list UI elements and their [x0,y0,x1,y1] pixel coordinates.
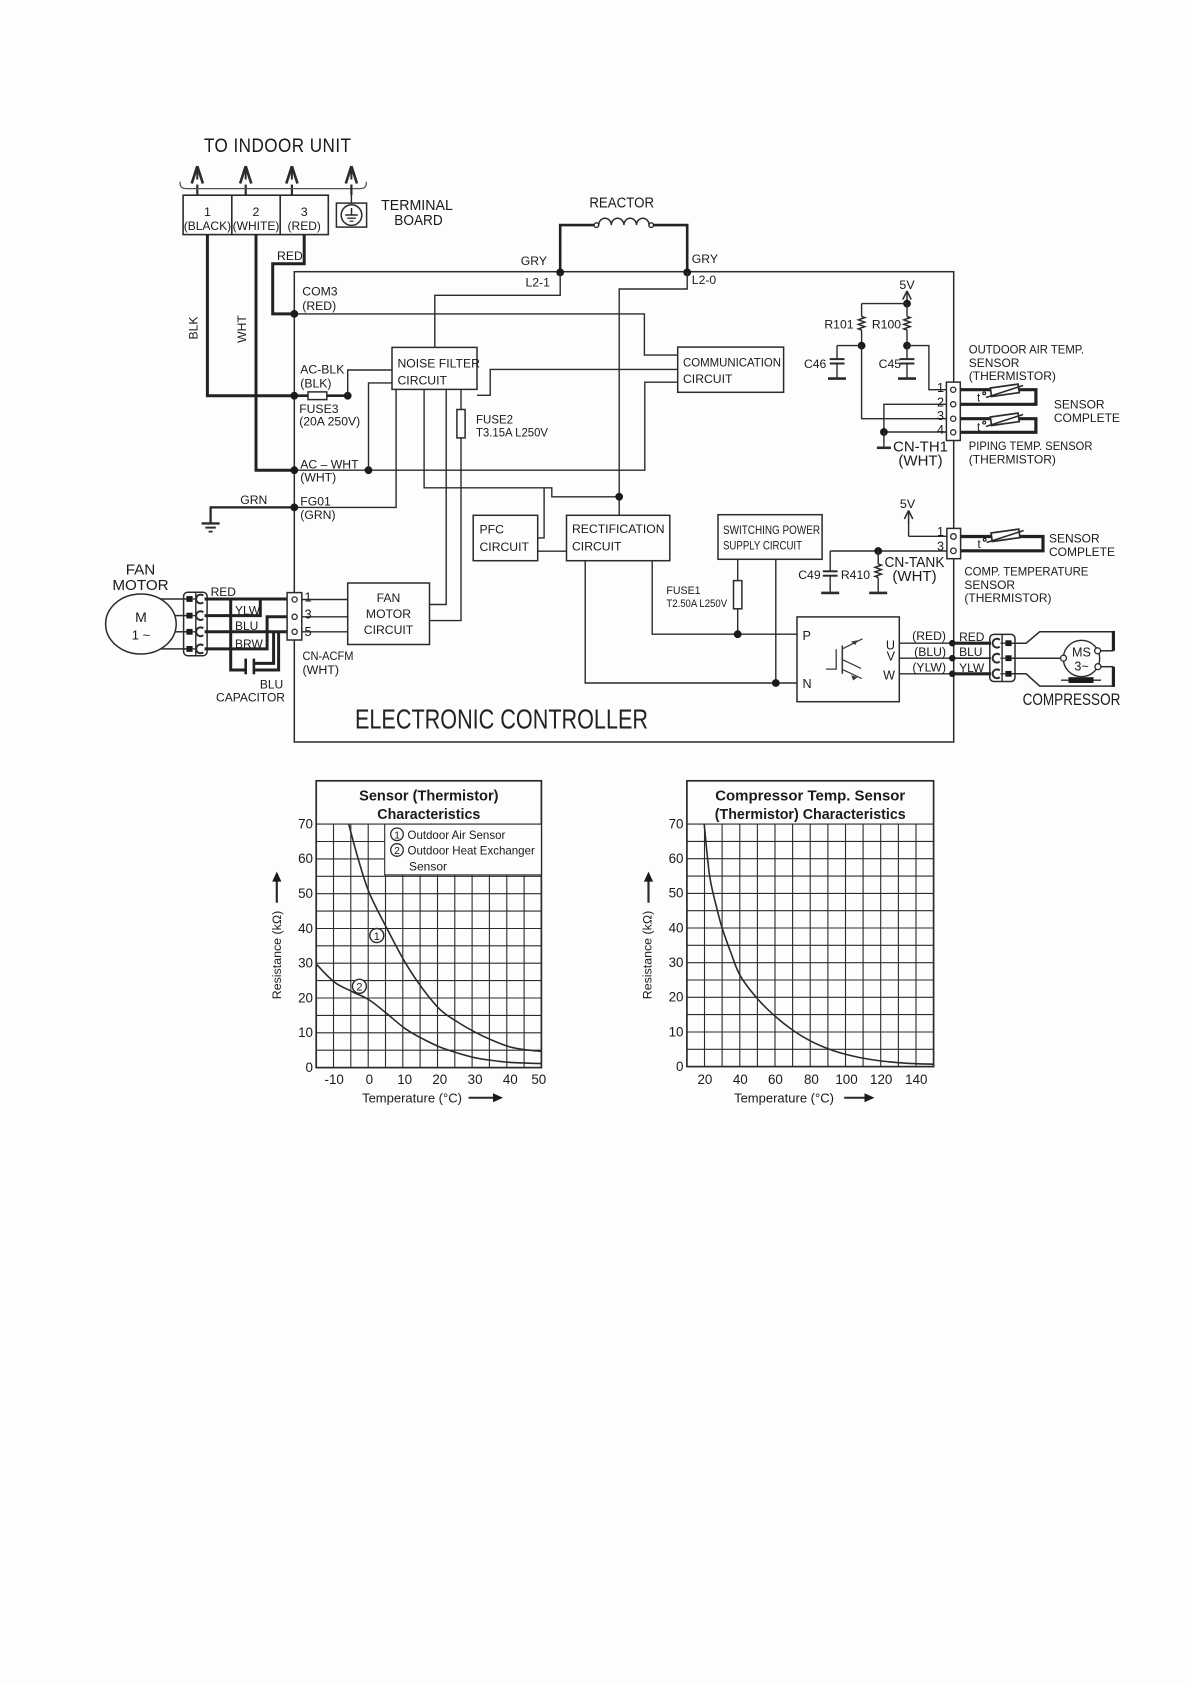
svg-text:(20A 250V): (20A 250V) [299,415,360,429]
svg-text:CIRCUIT: CIRCUIT [572,539,622,553]
svg-text:L2-0: L2-0 [692,273,717,287]
svg-text:(BLK): (BLK) [300,377,331,391]
wire WHT from terminal 2 [256,235,294,471]
svg-text:30: 30 [669,955,684,970]
svg-text:10: 10 [669,1024,684,1039]
wire RED compressor [954,642,991,645]
svg-text:10: 10 [397,1072,412,1087]
svg-text:RED: RED [211,585,237,599]
junction AC-BLK [344,392,352,400]
svg-text:T2.50A L250V: T2.50A L250V [666,598,728,610]
svg-text:2: 2 [253,205,260,219]
node W [949,671,956,678]
resistor R100 [906,304,908,317]
junction L2-0 rectification [615,493,623,501]
svg-text:80: 80 [804,1072,819,1087]
svg-text:Sensor (Thermistor): Sensor (Thermistor) [359,788,498,805]
thermistor loop comp [961,537,1043,551]
node COM3 entry [290,310,298,318]
junction dot L2-0 [683,269,691,277]
indoor-unit arrow 1 [192,166,198,183]
svg-text:140: 140 [905,1072,927,1087]
svg-text:SENSOR: SENSOR [1054,398,1105,412]
svg-text:GRN: GRN [240,493,267,507]
wire V to compressor [1012,657,1067,659]
svg-text:L2-1: L2-1 [526,276,551,290]
svg-text:COM3: COM3 [302,285,337,299]
junction R100 bottom [903,342,911,350]
node 5V upper [903,300,911,308]
fuse FUSE1 [734,581,742,609]
svg-text:AC – WHT: AC – WHT [300,458,359,472]
svg-text:70: 70 [669,816,684,831]
wire PFC tap [537,488,544,538]
svg-text:REACTOR: REACTOR [589,196,654,212]
svg-text:T3.15A L250V: T3.15A L250V [476,428,548,440]
svg-text:-10: -10 [325,1072,344,1087]
svg-text:Compressor Temp. Sensor: Compressor Temp. Sensor [715,788,905,805]
svg-text:(RED): (RED) [912,629,946,643]
wire switching supply to N [775,559,777,683]
svg-text:GRY: GRY [692,252,718,266]
thermistor loop outdoor air [960,390,1036,405]
svg-text:COMP. TEMPERATURE: COMP. TEMPERATURE [964,565,1088,579]
block IPM inverter [797,617,899,702]
electronic controller outline [294,272,953,742]
svg-text:CIRCUIT: CIRCUIT [398,374,448,388]
svg-text:Temperature (°C): Temperature (°C) [362,1091,462,1106]
svg-text:5V: 5V [899,278,915,292]
graph2 grid [687,824,934,1067]
svg-text:Resistance (kΩ): Resistance (kΩ) [270,911,284,999]
svg-text:3: 3 [937,409,944,423]
block COMMUNICATION CIRCUIT [678,347,784,392]
svg-text:GRY: GRY [521,254,547,268]
op-amp block NOISE FILTER CIRCUIT [392,347,477,389]
wire CN-TH1 pin4 to ground [884,431,947,433]
svg-text:10: 10 [298,1025,313,1040]
graph1 legend box [385,824,542,875]
junction AC-WHT to noise filter [365,466,373,474]
svg-text:(BLU): (BLU) [914,645,946,659]
junction pins 2-4 [880,428,888,436]
svg-text:40: 40 [669,920,684,935]
fuse FUSE3 [308,392,327,400]
svg-text:(YLW): (YLW) [912,661,946,675]
node V [949,655,956,662]
svg-text:C46: C46 [804,357,827,371]
wire U output [899,642,953,644]
wires CN-ACFM to fan motor circuit [302,599,348,601]
svg-text:FG01: FG01 [300,495,331,509]
wire RED from terminal 3 [273,235,305,314]
wire BRW fan to pin3 [205,617,294,649]
thermistor piping sensor [986,413,1023,426]
svg-text:Outdoor Air Sensor: Outdoor Air Sensor [408,828,506,842]
svg-text:3~: 3~ [1074,660,1088,674]
wire COM3 [294,314,677,355]
svg-text:50: 50 [531,1072,546,1087]
svg-text:FUSE1: FUSE1 [666,585,700,597]
svg-text:Outdoor Heat Exchanger: Outdoor Heat Exchanger [408,844,535,858]
svg-text:3: 3 [305,607,312,622]
svg-text:OUTDOOR AIR TEMP.: OUTDOOR AIR TEMP. [969,343,1084,357]
svg-text:FAN: FAN [377,591,401,605]
svg-text:BOARD: BOARD [394,213,442,229]
svg-text:COMPLETE: COMPLETE [1054,411,1120,425]
svg-text:(THERMISTOR): (THERMISTOR) [969,452,1056,466]
wire R100 to CN-TH1 pin1 [907,346,946,390]
svg-text:0: 0 [676,1059,683,1074]
svg-text:BLU: BLU [959,645,982,659]
wire CN-TH1 pin2 to ground [884,404,947,432]
resistor R410 [877,551,879,564]
svg-text:1: 1 [374,931,380,943]
svg-text:0: 0 [306,1060,313,1075]
svg-text:PIPING TEMP. SENSOR: PIPING TEMP. SENSOR [969,439,1093,453]
wire BLU fan to pin5 [205,630,294,633]
svg-text:3: 3 [301,205,308,219]
junction dot L2-1 [556,269,564,277]
connector CN-ACFM [287,593,302,640]
connector fan motor plug [184,592,208,656]
graph1 marker 1 [370,929,384,943]
svg-text:40: 40 [503,1072,518,1087]
svg-text:20: 20 [697,1072,712,1087]
brace over terminal board [180,182,366,189]
svg-text:30: 30 [298,956,313,971]
svg-text:1: 1 [394,829,400,841]
svg-text:Resistance (kΩ): Resistance (kΩ) [641,911,655,999]
wire RED fan to pin1 [205,598,294,601]
svg-text:MOTOR: MOTOR [112,577,168,594]
block PFC CIRCUIT [473,515,538,560]
svg-text:(RED): (RED) [302,299,336,313]
wire noise filter lower-left pin [369,383,393,470]
svg-text:60: 60 [298,851,313,866]
svg-text:SENSOR: SENSOR [1049,532,1100,546]
svg-text:COMPLETE: COMPLETE [1049,545,1115,559]
svg-text:MS: MS [1072,646,1091,660]
svg-text:30: 30 [468,1072,483,1087]
svg-text:20: 20 [298,990,313,1005]
svg-text:0: 0 [366,1072,373,1087]
wire rectification to IPM N [585,561,797,683]
node U [949,640,956,647]
5V arrow lower [908,512,910,523]
thermistor loop piping [960,419,1036,433]
svg-text:60: 60 [669,851,684,866]
graph2 x axis arrow [844,1097,865,1099]
indoor-unit arrow 4 [346,166,352,183]
svg-text:N: N [803,677,812,691]
junction P FUSE1 [734,630,742,638]
svg-text:WHT: WHT [235,315,249,343]
svg-text:4: 4 [937,423,944,437]
svg-text:M: M [135,609,147,625]
junction R410 top [874,547,882,555]
capacitor fan BLU [244,659,247,675]
fuse FUSE2 [457,410,465,438]
wire noise filter right pin to communication circuit [477,369,678,395]
svg-text:1: 1 [937,381,944,395]
motor M1 fan motor [106,594,177,654]
svg-text:MOTOR: MOTOR [366,607,411,621]
svg-text:Temperature (°C): Temperature (°C) [734,1091,834,1106]
motor leads [161,598,187,600]
indoor-unit arrow 2 [240,166,246,183]
connector CN-TANK [947,528,961,558]
compressor heater bar [1061,679,1101,681]
svg-text:(WHT): (WHT) [892,568,936,585]
svg-text:(THERMISTOR): (THERMISTOR) [969,369,1056,383]
svg-text:SENSOR: SENSOR [964,578,1015,592]
wire noise filter pin2 to rectification net [424,389,619,496]
wire AC-BLK with FUSE3 [294,394,347,397]
thermistor outdoor air sensor [986,384,1023,397]
graph1 x axis arrow [469,1097,494,1099]
svg-text:SWITCHING POWER: SWITCHING POWER [723,523,820,537]
wire W to compressor [1012,674,1114,686]
thermistor comp sensor [987,529,1024,542]
wire L2-1 to noise filter [435,272,560,347]
indoor-unit arrow 3 [286,166,292,183]
wire FG01 [294,389,396,507]
motor MS compressor [1063,640,1099,676]
svg-text:20: 20 [432,1072,447,1087]
block RECTIFICATION CIRCUIT [567,515,670,560]
svg-text:PFC: PFC [480,523,505,537]
svg-text:(BLACK): (BLACK) [184,219,231,233]
svg-text:20: 20 [669,990,684,1005]
capacitor C45 [906,346,908,359]
wire W output [899,673,953,675]
graph1 legend [391,828,404,841]
svg-text:(WHT): (WHT) [303,663,339,677]
wire GRN to earth ground [211,507,295,523]
node AC-WHT entry [290,466,298,474]
svg-text:5V: 5V [900,497,916,511]
svg-text:2: 2 [937,396,944,410]
svg-text:50: 50 [298,886,313,901]
graph1 y axis arrow [276,881,278,903]
svg-text:CIRCUIT: CIRCUIT [364,623,414,637]
wire AC-BLK to noise filter [348,370,392,396]
svg-text:C45: C45 [879,357,902,371]
svg-text:50: 50 [669,886,684,901]
svg-text:(GRN): (GRN) [300,508,335,522]
svg-text:2: 2 [356,982,362,994]
graph1 grid [316,824,541,1068]
svg-text:TERMINAL: TERMINAL [381,198,453,214]
wire L2-0 drop [619,272,687,516]
svg-text:RED: RED [277,249,303,263]
reactor [560,225,594,272]
svg-text:RECTIFICATION: RECTIFICATION [572,522,665,536]
svg-text:ELECTRONIC CONTROLLER: ELECTRONIC CONTROLLER [355,704,648,735]
graph1 curve 2 heat exchanger [316,964,541,1064]
ground CN-TH1 [877,446,891,449]
svg-text:CAPACITOR: CAPACITOR [216,691,285,705]
wire noise filter pin3 to fan motor circuit [430,389,447,604]
junction R101 bottom [858,342,866,350]
graph1 marker 2 [352,979,366,993]
ground symbol [202,522,220,524]
svg-text:120: 120 [870,1072,892,1087]
svg-text:SUPPLY CIRCUIT: SUPPLY CIRCUIT [723,539,802,553]
svg-text:RED: RED [959,630,985,644]
svg-text:V: V [887,649,896,663]
wire noise filter pin4 with FUSE2 [430,389,462,620]
wire YLW fan [205,600,261,616]
svg-text:CN-ACFM: CN-ACFM [303,649,354,663]
svg-text:(WHITE): (WHITE) [233,219,280,233]
svg-text:(WHT): (WHT) [300,471,336,485]
graph2 frame [687,781,934,1067]
graph2 curve comp sensor [704,824,933,1064]
svg-text:Characteristics: Characteristics [377,806,480,823]
svg-text:60: 60 [768,1072,783,1087]
wire PFC to rectification [538,550,567,552]
wire YLW compressor [954,672,991,675]
svg-text:40: 40 [733,1072,748,1087]
wire U to compressor [1012,632,1114,643]
graph1 frame [316,781,541,1068]
connector CN-TH1 [946,382,960,440]
capacitor C49 [829,551,831,571]
svg-text:2: 2 [394,845,400,857]
wire RED branch to capacitor [231,599,245,670]
svg-text:Sensor: Sensor [409,859,447,873]
wire BLK from terminal 1 [207,235,294,396]
svg-text:100: 100 [835,1072,857,1087]
graph2 y axis arrow [647,881,649,903]
wire 5V rail [862,303,907,305]
svg-text:SENSOR: SENSOR [969,356,1020,370]
svg-text:1: 1 [937,525,944,539]
terminal board box [183,195,328,234]
junction N [772,679,780,687]
block FAN MOTOR CIRCUIT [348,583,430,645]
svg-text:70: 70 [298,816,313,831]
svg-text:40: 40 [298,921,313,936]
svg-text:CIRCUIT: CIRCUIT [480,540,530,554]
svg-text:P: P [803,629,811,643]
svg-text:R410: R410 [841,568,870,582]
svg-text:1 ~: 1 ~ [132,628,151,643]
connector compressor plug [990,634,1015,681]
wire 5V to CN-TANK pin1 [909,535,947,537]
svg-text:COMPRESSOR: COMPRESSOR [1023,691,1121,709]
svg-text:AC-BLK: AC-BLK [300,363,344,377]
node AC-BLK entry [290,392,298,400]
wire AC-WHT [294,382,677,470]
svg-text:FUSE2: FUSE2 [476,415,513,427]
block SWITCHING POWER SUPPLY CIRCUIT [718,515,822,560]
svg-text:COMMUNICATION: COMMUNICATION [683,356,781,370]
svg-text:YLW: YLW [959,661,985,675]
svg-text:NOISE FILTER: NOISE FILTER [398,356,481,370]
5V arrow upper [906,293,908,304]
wire V output [899,657,953,659]
svg-text:(WHT): (WHT) [898,453,942,470]
svg-text:W: W [883,668,895,682]
svg-text:C49: C49 [798,568,821,582]
transistor IGBT symbol [826,649,836,669]
wire C49 R410 rail to pin3 [830,550,947,552]
earth terminal box [350,185,352,204]
wire R101 to CN-TH1 pin3 [862,346,947,419]
wire rectification to IPM P [652,561,797,635]
capacitor C46 [837,345,862,347]
svg-text:TO INDOOR UNIT: TO INDOOR UNIT [204,136,352,157]
wire BLU compressor [954,657,991,659]
graph1 curve 1 outdoor air [349,824,542,1051]
svg-text:3: 3 [937,540,944,554]
svg-text:BLK: BLK [187,316,201,339]
svg-text:BLU: BLU [260,678,283,692]
svg-text:R100: R100 [872,318,901,332]
svg-text:CIRCUIT: CIRCUIT [683,372,733,386]
resistor R101 [861,304,863,317]
node FG01 entry [290,504,298,512]
wire BLU branch to capacitor [255,632,274,664]
wire capacitor to pin5 [255,633,279,670]
svg-text:(Thermistor) Characteristics: (Thermistor) Characteristics [715,806,906,823]
svg-text:(RED): (RED) [288,219,321,233]
svg-text:1: 1 [305,590,312,605]
svg-text:R101: R101 [824,318,853,332]
svg-text:(THERMISTOR): (THERMISTOR) [964,591,1051,605]
wire switching supply with FUSE1 to P [737,559,739,634]
svg-text:1: 1 [204,205,211,219]
